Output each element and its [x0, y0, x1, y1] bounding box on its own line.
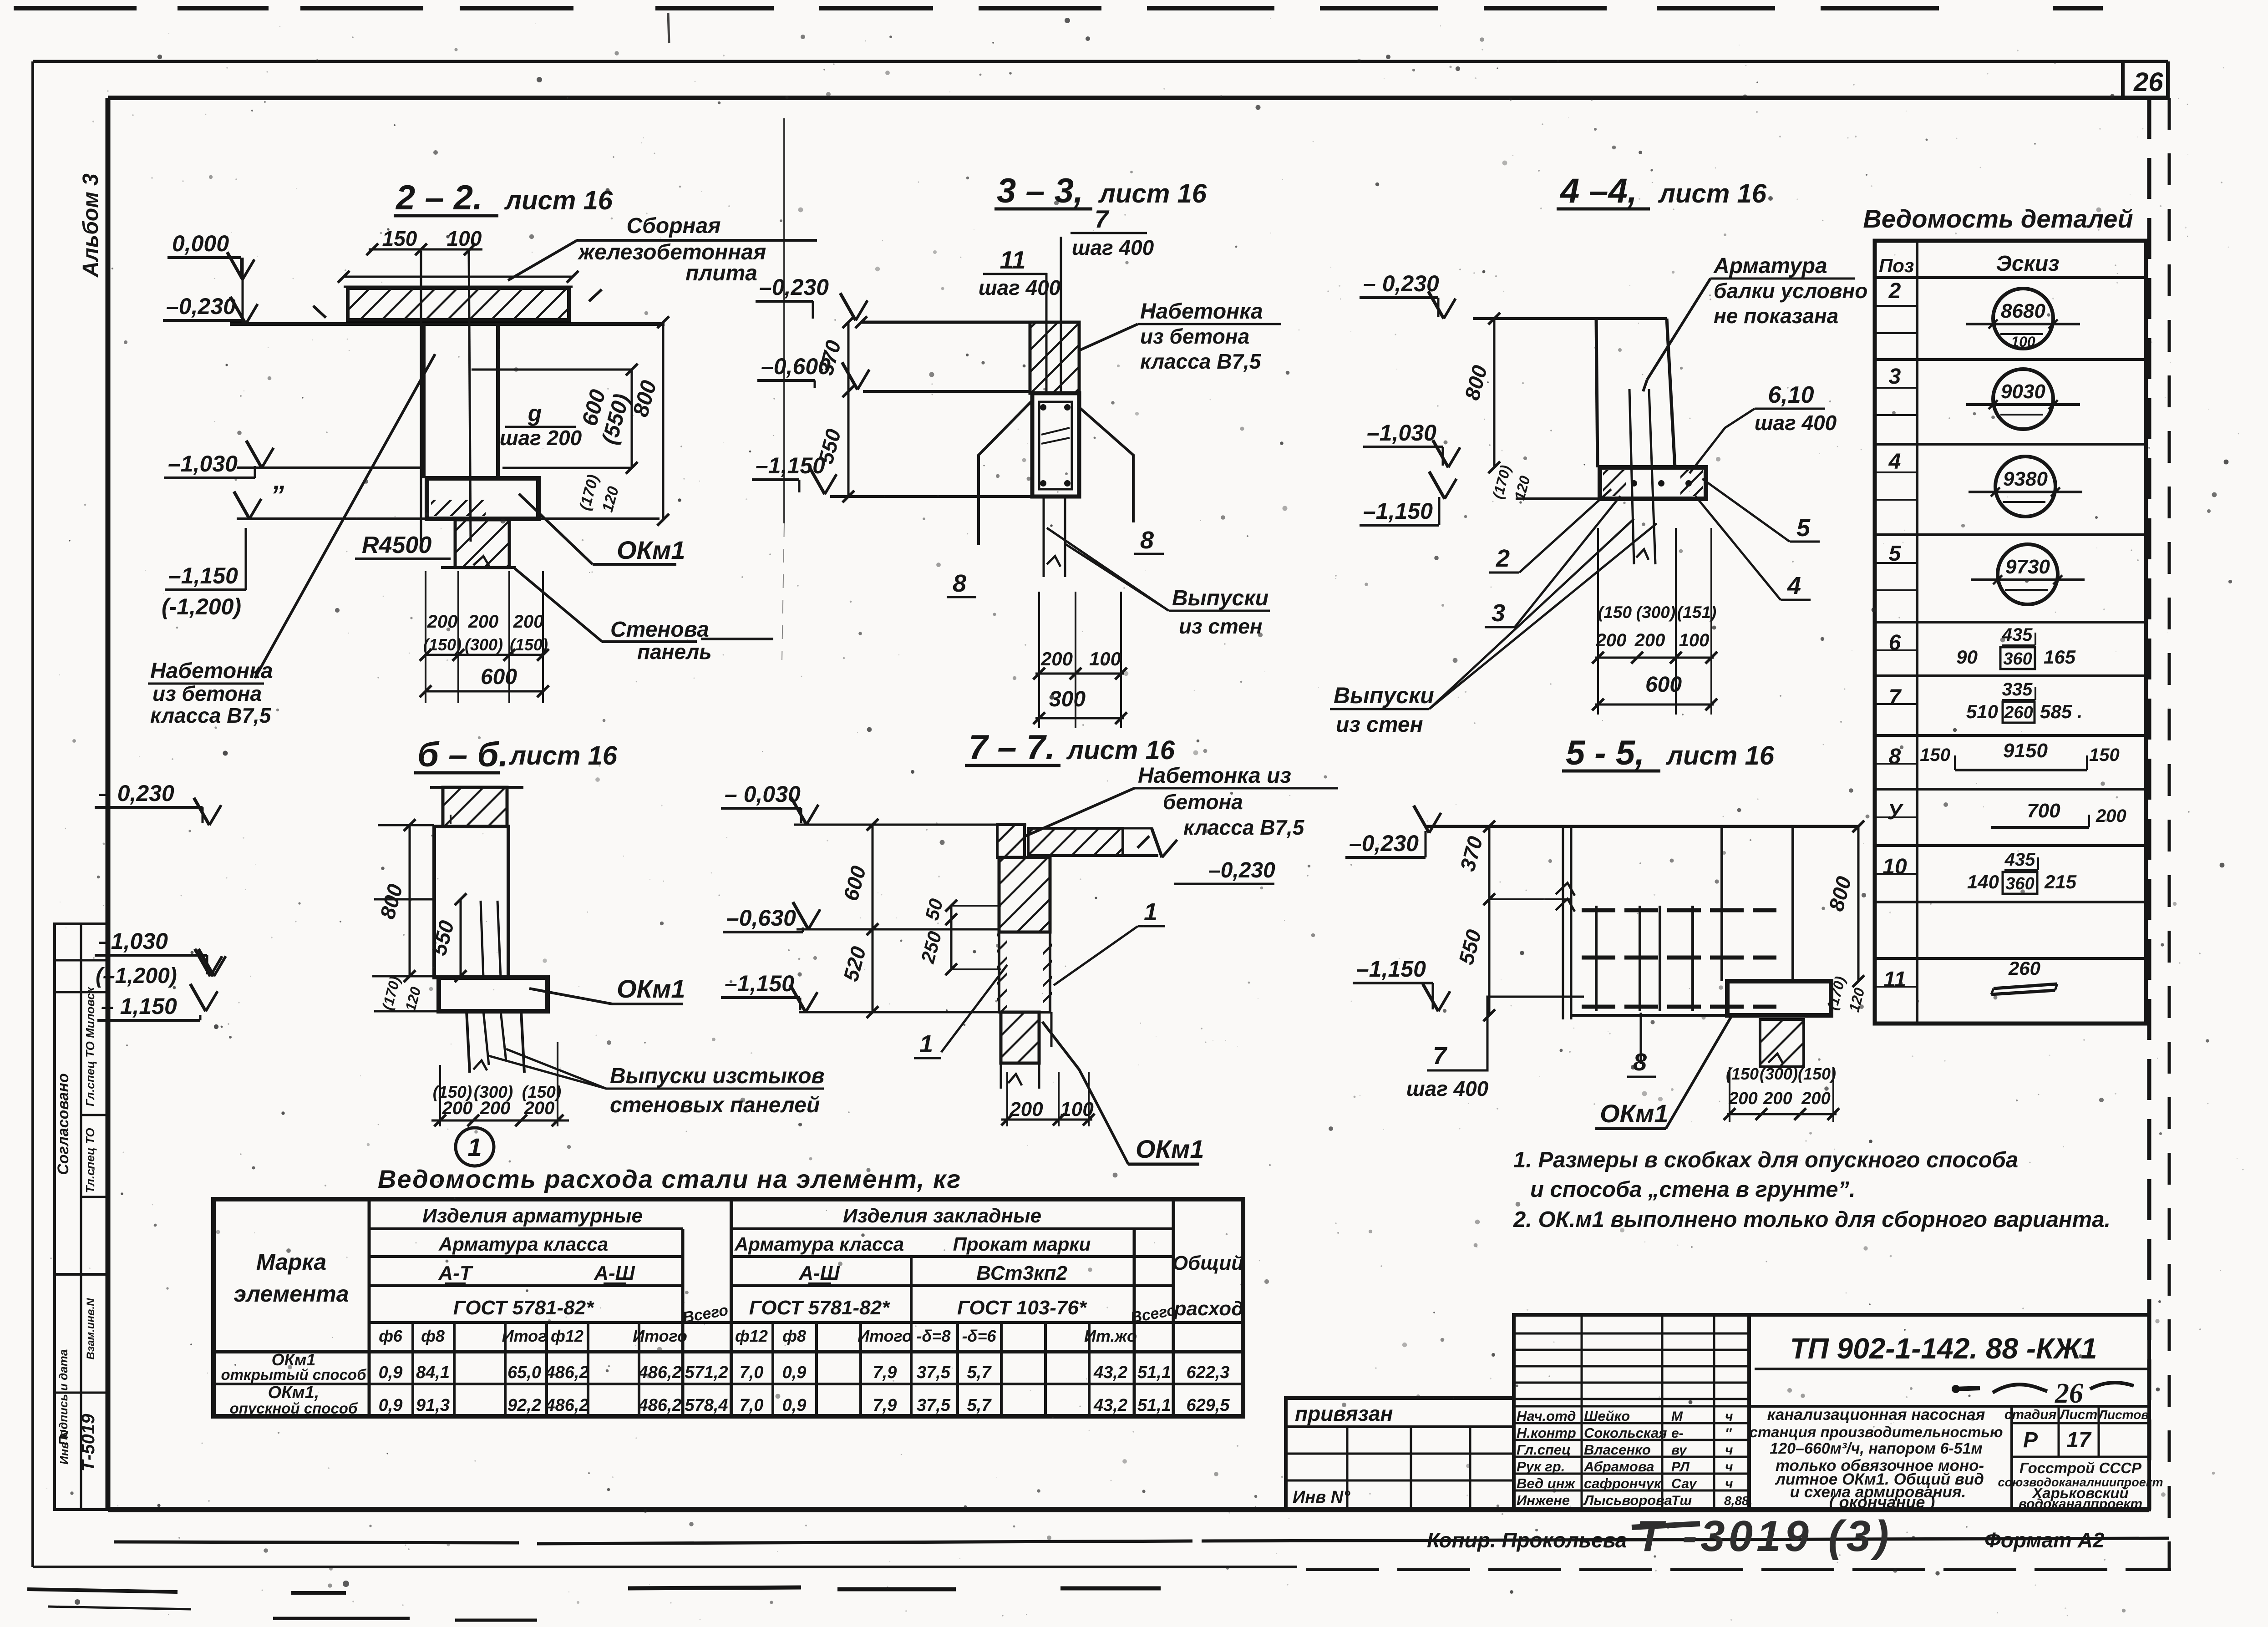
- svg-text:станция производительностью: станция производительностью: [1749, 1424, 2003, 1440]
- svg-text:600: 600: [481, 665, 517, 689]
- svg-text:65,0: 65,0: [507, 1363, 541, 1382]
- svg-text:3 – 3,: 3 – 3,: [997, 172, 1083, 210]
- svg-text:ОКм1,: ОКм1,: [268, 1383, 320, 1402]
- svg-text:Сау: Сау: [1671, 1476, 1697, 1491]
- svg-text:Набетонка: Набетонка: [1140, 299, 1263, 324]
- svg-text:578,4: 578,4: [685, 1396, 728, 1415]
- svg-text:Н.контр: Н.контр: [1517, 1425, 1576, 1441]
- svg-text:стеновых панелей: стеновых панелей: [610, 1093, 820, 1117]
- svg-text:(150: (150: [1598, 603, 1632, 622]
- svg-text:ТП 902-1-142. 88 -КЖ1: ТП 902-1-142. 88 -КЖ1: [1790, 1332, 2097, 1365]
- svg-text:5,7: 5,7: [967, 1396, 992, 1415]
- svg-text:( окончание ): ( окончание ): [1829, 1493, 1935, 1511]
- svg-text:Копир. Прокольева: Копир. Прокольева: [1427, 1528, 1627, 1552]
- svg-text:3: 3: [1889, 365, 1901, 389]
- svg-text:150: 150: [2089, 745, 2120, 765]
- svg-text:100: 100: [2011, 334, 2035, 350]
- svg-text:9150: 9150: [2003, 740, 2048, 762]
- svg-text:200: 200: [1634, 630, 1665, 650]
- svg-text:Лысьворова: Лысьворова: [1583, 1492, 1672, 1508]
- svg-text:ГОСТ 103-76*: ГОСТ 103-76*: [957, 1297, 1087, 1319]
- svg-text:–0,230: –0,230: [1349, 831, 1419, 856]
- svg-text:g: g: [528, 400, 542, 426]
- svg-text:–0,230: –0,230: [759, 274, 829, 300]
- svg-text:–0,600: –0,600: [761, 354, 831, 379]
- svg-text:из бетона: из бетона: [152, 682, 262, 705]
- svg-text:165: 165: [2044, 646, 2076, 668]
- svg-text:ф12: ф12: [735, 1327, 768, 1345]
- svg-text:ОКм1: ОКм1: [1600, 1099, 1669, 1128]
- svg-text:(300): (300): [465, 635, 503, 654]
- svg-text:7,9: 7,9: [873, 1363, 897, 1382]
- svg-text:класса В7,5: класса В7,5: [1140, 350, 1262, 373]
- svg-text:100: 100: [447, 227, 482, 250]
- svg-text:Тл.спец ТО: Тл.спец ТО: [83, 1128, 97, 1193]
- svg-text:Итог: Итог: [502, 1327, 547, 1345]
- svg-text:Набетонка: Набетонка: [150, 659, 273, 683]
- svg-text:5 - 5,: 5 - 5,: [1566, 734, 1644, 772]
- svg-text:300: 300: [1049, 687, 1086, 711]
- svg-text:РЛ: РЛ: [1671, 1460, 1690, 1475]
- svg-text:–1,030: –1,030: [1367, 420, 1436, 446]
- svg-text:200: 200: [468, 612, 499, 632]
- svg-text:– 0,030: – 0,030: [725, 781, 801, 807]
- svg-text:Рук гр.: Рук гр.: [1517, 1459, 1565, 1475]
- svg-text:622,3: 622,3: [1186, 1363, 1229, 1382]
- svg-text:7,9: 7,9: [873, 1396, 897, 1415]
- svg-text:(300): (300): [1760, 1064, 1798, 1083]
- svg-text:ф8: ф8: [782, 1327, 806, 1345]
- svg-text:Набетонка из: Набетонка из: [1138, 764, 1291, 788]
- svg-text:Ведомость расхода стали на эле: Ведомость расхода стали на элемент, кг: [378, 1165, 961, 1193]
- svg-text:2: 2: [1496, 545, 1510, 572]
- svg-text:260: 260: [2004, 703, 2033, 722]
- svg-text:200: 200: [1801, 1089, 1830, 1108]
- svg-text:(–1,200): (–1,200): [96, 964, 177, 988]
- svg-text:3: 3: [1492, 599, 1505, 627]
- svg-text:„: „: [273, 465, 287, 495]
- svg-text:0,9: 0,9: [782, 1396, 807, 1415]
- svg-text:486,2: 486,2: [545, 1363, 589, 1382]
- svg-text:100: 100: [1089, 648, 1121, 669]
- svg-text:Выпуски изстыков: Выпуски изстыков: [610, 1064, 825, 1088]
- svg-text:Шейко: Шейко: [1584, 1408, 1630, 1424]
- svg-text:Альбом 3: Альбом 3: [79, 173, 103, 278]
- svg-text:2. ОК.м1 выполнено только для: 2. ОК.м1 выполнено только для сборного в…: [1513, 1207, 2111, 1232]
- svg-text:200: 200: [524, 1098, 555, 1118]
- svg-text:2 – 2.: 2 – 2.: [395, 178, 482, 217]
- svg-text:-δ=6: -δ=6: [962, 1327, 996, 1345]
- svg-text:0,000: 0,000: [172, 231, 229, 256]
- svg-text:Арматура класса: Арматура класса: [734, 1233, 904, 1255]
- svg-text:11: 11: [1883, 968, 1906, 992]
- svg-text:Сборная: Сборная: [627, 214, 721, 238]
- svg-text:200: 200: [1728, 1089, 1757, 1108]
- svg-text:37,5: 37,5: [917, 1396, 951, 1415]
- svg-text:Эскиз: Эскиз: [1996, 252, 2059, 276]
- svg-text:5,7: 5,7: [967, 1363, 992, 1382]
- svg-text:Изделия арматурные: Изделия арматурные: [422, 1205, 643, 1227]
- svg-text:″: ″: [1725, 1426, 1732, 1441]
- svg-text:ГОСТ 5781-82*: ГОСТ 5781-82*: [749, 1297, 890, 1319]
- svg-text:Поз: Поз: [1879, 255, 1914, 276]
- svg-text:–0,630: –0,630: [726, 905, 796, 931]
- svg-text:(-1,200): (-1,200): [162, 594, 241, 619]
- svg-text:1: 1: [919, 1030, 933, 1058]
- svg-text:510: 510: [1966, 701, 1998, 722]
- svg-text:91,3: 91,3: [416, 1396, 450, 1415]
- svg-text:Арматура: Арматура: [1713, 254, 1827, 278]
- svg-text:Госстрой СССР: Госстрой СССР: [2019, 1460, 2142, 1476]
- svg-text:панель: панель: [637, 640, 712, 664]
- svg-text:– 1,150: – 1,150: [101, 993, 177, 1019]
- svg-text:–0,230: –0,230: [1208, 858, 1275, 882]
- svg-text:класса В7,5: класса В7,5: [150, 704, 272, 727]
- svg-text:лист 16: лист 16: [1098, 179, 1207, 208]
- svg-text:лист 16: лист 16: [508, 741, 618, 770]
- svg-text:260: 260: [2008, 958, 2040, 979]
- svg-text:ОКм1: ОКм1: [617, 974, 685, 1003]
- svg-text:7,0: 7,0: [740, 1396, 764, 1415]
- svg-text:629,5: 629,5: [1186, 1396, 1230, 1415]
- svg-text:486,2: 486,2: [638, 1396, 681, 1415]
- svg-text:–1,150: –1,150: [1363, 498, 1433, 524]
- svg-text:лист 16: лист 16: [1658, 179, 1767, 208]
- svg-text:Лист: Лист: [2059, 1407, 2097, 1422]
- svg-text:200: 200: [427, 612, 458, 632]
- svg-text:Общий: Общий: [1172, 1252, 1243, 1274]
- svg-text:ОКм1: ОКм1: [1136, 1135, 1204, 1163]
- svg-text:7: 7: [1433, 1042, 1448, 1069]
- svg-text:лист 16: лист 16: [504, 186, 613, 215]
- svg-text:R4500: R4500: [362, 532, 431, 558]
- svg-text:класса В7,5: класса В7,5: [1183, 816, 1305, 839]
- svg-text:150: 150: [1920, 745, 1950, 765]
- svg-text:1: 1: [467, 1133, 482, 1161]
- svg-text:водоканалпроект: водоканалпроект: [2019, 1496, 2142, 1511]
- svg-text:200: 200: [1009, 1098, 1043, 1120]
- svg-text:486,2: 486,2: [545, 1396, 589, 1415]
- svg-text:51,1: 51,1: [1137, 1363, 1171, 1382]
- svg-text:335: 335: [2002, 679, 2033, 699]
- svg-text:лист 16: лист 16: [1066, 735, 1175, 765]
- svg-text:11: 11: [1000, 246, 1025, 274]
- svg-text:Ит.жо: Ит.жо: [1084, 1327, 1137, 1345]
- svg-text:Инв N°: Инв N°: [1293, 1488, 1350, 1507]
- svg-text:200: 200: [1763, 1089, 1792, 1108]
- svg-text:Согласовано: Согласовано: [55, 1073, 72, 1175]
- svg-text:0,9: 0,9: [379, 1396, 403, 1415]
- svg-text:43,2: 43,2: [1093, 1363, 1127, 1382]
- svg-text:плита: плита: [685, 261, 757, 285]
- svg-text:Нач.отд: Нач.отд: [1517, 1408, 1576, 1424]
- svg-text:435: 435: [2004, 850, 2035, 870]
- svg-text:7: 7: [1889, 685, 1902, 710]
- svg-text:Стенова: Стенова: [610, 618, 709, 642]
- svg-text:Марка: Марка: [256, 1249, 326, 1275]
- svg-text:ВСт3кп2: ВСт3кп2: [976, 1262, 1067, 1284]
- svg-text:открытый способ: открытый способ: [221, 1366, 367, 1383]
- svg-text:– 0,230: – 0,230: [98, 781, 174, 806]
- svg-text:Арматура класса: Арматура класса: [438, 1233, 608, 1255]
- svg-text:А-Ш: А-Ш: [798, 1262, 840, 1284]
- svg-text:90: 90: [1956, 646, 1978, 668]
- svg-text:Гл.спец: Гл.спец: [1517, 1442, 1571, 1458]
- svg-text:200: 200: [1040, 648, 1073, 669]
- svg-text:43,2: 43,2: [1093, 1396, 1127, 1415]
- svg-text:е-: е-: [1671, 1426, 1684, 1441]
- svg-text:–1,150: –1,150: [168, 563, 238, 588]
- svg-text:-δ=8: -δ=8: [916, 1327, 950, 1345]
- svg-text:шаг 400: шаг 400: [1755, 411, 1837, 435]
- svg-text:Изделия закладные: Изделия закладные: [843, 1205, 1041, 1227]
- svg-text:Р: Р: [2023, 1428, 2038, 1452]
- svg-text:585 .: 585 .: [2040, 701, 2082, 722]
- svg-text:(150: (150: [1726, 1064, 1759, 1083]
- svg-text:7 – 7.: 7 – 7.: [969, 728, 1055, 767]
- svg-text:9730: 9730: [2005, 556, 2050, 578]
- svg-text:Прокат марки: Прокат марки: [953, 1233, 1091, 1255]
- svg-text:8: 8: [953, 570, 966, 597]
- svg-text:У: У: [1887, 800, 1904, 824]
- svg-text:0,9: 0,9: [379, 1363, 403, 1382]
- svg-text:8: 8: [1140, 527, 1154, 554]
- svg-text:А-Т: А-Т: [438, 1262, 473, 1284]
- svg-text:Тш: Тш: [1671, 1493, 1692, 1508]
- svg-text:Листов: Листов: [2098, 1408, 2149, 1422]
- svg-text:–1,150: –1,150: [1356, 956, 1426, 982]
- svg-text:(150): (150): [1798, 1064, 1836, 1083]
- svg-text:расход: расход: [1174, 1298, 1244, 1320]
- svg-text:Ведомость деталей: Ведомость деталей: [1863, 204, 2133, 233]
- svg-text:–1,030: –1,030: [168, 451, 238, 476]
- svg-text:ву: ву: [1671, 1443, 1687, 1458]
- svg-text:балки условно: балки условно: [1714, 279, 1867, 303]
- svg-text:2: 2: [1888, 279, 1901, 303]
- svg-text:шаг 200: шаг 200: [500, 426, 582, 450]
- svg-text:120–660м³/ч, напором 6-51м: 120–660м³/ч, напором 6-51м: [1770, 1440, 1982, 1457]
- svg-text:360: 360: [2003, 649, 2032, 669]
- svg-text:Выпуски: Выпуски: [1172, 586, 1268, 610]
- svg-text:Инжене: Инжене: [1517, 1492, 1570, 1508]
- svg-text:92,2: 92,2: [507, 1396, 541, 1415]
- svg-text:7: 7: [1095, 205, 1110, 233]
- svg-text:6: 6: [1889, 631, 1901, 655]
- svg-text:10: 10: [1882, 855, 1907, 879]
- svg-text:–0,230: –0,230: [166, 294, 236, 319]
- svg-text:ф6: ф6: [379, 1327, 403, 1345]
- svg-text:лист 16: лист 16: [1665, 741, 1775, 770]
- svg-text:ф8: ф8: [421, 1327, 445, 1345]
- svg-text:ф12: ф12: [551, 1327, 583, 1345]
- svg-text:из стен: из стен: [1336, 713, 1423, 737]
- svg-text:канализационная насосная: канализационная насосная: [1767, 1406, 1985, 1424]
- svg-text:435: 435: [2002, 625, 2033, 645]
- svg-text:6,10: 6,10: [1768, 382, 1814, 408]
- svg-text:8680: 8680: [2001, 300, 2045, 322]
- svg-text:–1,150: –1,150: [725, 971, 794, 996]
- svg-text:А-Ш: А-Ш: [594, 1262, 635, 1284]
- svg-text:(300): (300): [1636, 603, 1675, 622]
- svg-text:9380: 9380: [2003, 468, 2048, 490]
- svg-text:200: 200: [480, 1098, 511, 1118]
- svg-text:9030: 9030: [2001, 380, 2045, 403]
- svg-text:ч: ч: [1725, 1409, 1733, 1424]
- svg-text:26: 26: [2055, 1378, 2083, 1409]
- svg-text:ОКм1: ОКм1: [617, 536, 685, 564]
- svg-text:360: 360: [2005, 874, 2034, 893]
- svg-text:200: 200: [1596, 630, 1627, 650]
- svg-text:700: 700: [2027, 800, 2060, 822]
- svg-text:ч: ч: [1725, 1460, 1733, 1475]
- svg-text:Т-5019: Т-5019: [78, 1414, 98, 1471]
- svg-text:опускной способ: опускной способ: [230, 1400, 358, 1417]
- svg-text:17: 17: [2066, 1428, 2092, 1452]
- svg-text:7,0: 7,0: [740, 1363, 764, 1382]
- svg-text:не показана: не показана: [1714, 304, 1838, 328]
- svg-text:сафрончук: сафрончук: [1584, 1475, 1662, 1491]
- svg-text:140: 140: [1967, 871, 1999, 892]
- svg-text:Итого: Итого: [633, 1327, 687, 1345]
- svg-text:элемента: элемента: [233, 1281, 349, 1307]
- svg-text:ч: ч: [1725, 1443, 1733, 1458]
- svg-text:Вед инж: Вед инж: [1517, 1475, 1576, 1491]
- svg-text:571,2: 571,2: [685, 1363, 728, 1382]
- svg-text:Формат А2: Формат А2: [1984, 1528, 2105, 1552]
- svg-text:шаг 400: шаг 400: [979, 276, 1061, 299]
- svg-text:26: 26: [2133, 67, 2163, 97]
- svg-text:Итого: Итого: [857, 1327, 912, 1345]
- svg-text:и способа „стена в грунте”.: и способа „стена в грунте”.: [1530, 1177, 1856, 1202]
- svg-text:из стен: из стен: [1179, 614, 1263, 638]
- svg-text:шаг 400: шаг 400: [1406, 1077, 1489, 1100]
- svg-text:ГОСТ 5781-82*: ГОСТ 5781-82*: [453, 1297, 594, 1319]
- svg-text:486,2: 486,2: [638, 1363, 681, 1382]
- svg-text:4: 4: [1787, 572, 1801, 599]
- svg-text:Т -3019 (3): Т -3019 (3): [1636, 1512, 1893, 1561]
- svg-text:Сокольская: Сокольская: [1584, 1425, 1667, 1441]
- svg-text:Власенко: Власенко: [1584, 1442, 1651, 1458]
- svg-text:Гл.спец ТО Миловск: Гл.спец ТО Миловск: [83, 986, 97, 1106]
- svg-text:из бетона: из бетона: [1140, 324, 1249, 348]
- svg-text:8: 8: [1889, 745, 1901, 769]
- svg-text:1. Размеры в скобках для опуск: 1. Размеры в скобках для опускного спосо…: [1513, 1148, 2018, 1172]
- svg-text:4 –4,: 4 –4,: [1559, 172, 1637, 210]
- svg-text:5: 5: [1796, 514, 1811, 542]
- svg-text:100: 100: [1679, 630, 1710, 650]
- svg-text:4: 4: [1888, 450, 1901, 474]
- svg-text:стадия: стадия: [2004, 1407, 2057, 1422]
- svg-text:ч: ч: [1725, 1476, 1733, 1491]
- svg-text:1: 1: [1144, 898, 1157, 926]
- svg-text:М: М: [1671, 1409, 1683, 1424]
- svg-text:Абрамова: Абрамова: [1583, 1459, 1654, 1475]
- svg-text:200: 200: [2095, 806, 2126, 826]
- svg-text:84,1: 84,1: [416, 1363, 450, 1382]
- svg-text:215: 215: [2044, 871, 2077, 892]
- svg-text:б – б.: б – б.: [417, 735, 508, 774]
- svg-text:0,9: 0,9: [782, 1363, 807, 1382]
- svg-text:шаг 400: шаг 400: [1072, 236, 1154, 259]
- svg-text:Взам.инв.N: Взам.инв.N: [85, 1298, 97, 1360]
- svg-text:Выпуски: Выпуски: [1334, 683, 1434, 708]
- svg-text:Инв N: Инв N: [57, 1429, 71, 1465]
- svg-text:37,5: 37,5: [917, 1363, 951, 1382]
- svg-text:51,1: 51,1: [1137, 1396, 1171, 1415]
- svg-text:200: 200: [513, 612, 544, 632]
- svg-text:–1,030: –1,030: [98, 928, 168, 954]
